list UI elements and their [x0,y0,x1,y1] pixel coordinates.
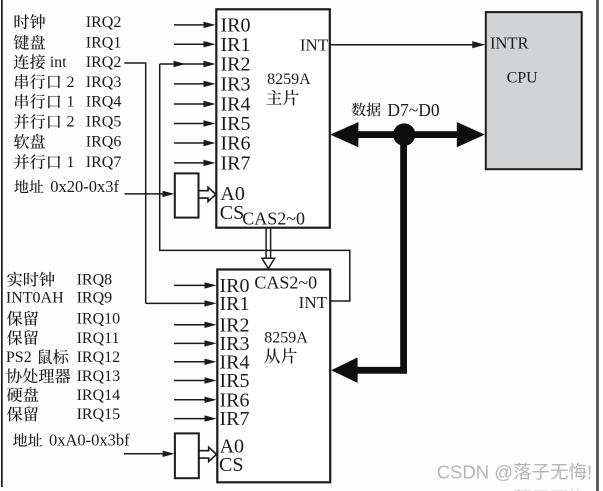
svg-text:0xA0-0x3bf: 0xA0-0x3bf [49,431,130,450]
svg-text:IR1: IR1 [221,34,251,56]
svg-text:IR2: IR2 [221,54,251,76]
svg-text:CAS2~0: CAS2~0 [254,272,317,292]
svg-text:IR7: IR7 [221,153,251,175]
svg-text:IRQ8: IRQ8 [77,272,113,289]
svg-text:int: int [50,54,67,71]
svg-text:IRQ10: IRQ10 [77,311,121,328]
svg-text:IRQ7: IRQ7 [86,154,122,171]
svg-text:IRQ12: IRQ12 [77,349,121,366]
svg-text:8259A: 8259A [264,330,308,347]
svg-text:CS: CS [219,454,243,476]
svg-text:CSDN @: CSDN @ [437,488,513,491]
svg-text:PS2: PS2 [6,349,32,366]
svg-text:IR3: IR3 [221,74,251,96]
svg-text:!: ! [587,461,592,482]
svg-text:CPU: CPU [507,70,539,87]
svg-text:!: ! [587,488,592,491]
svg-text:CAS2~0: CAS2~0 [242,209,305,229]
svg-text:2: 2 [67,114,75,131]
svg-text:IRQ14: IRQ14 [77,387,121,404]
svg-text:2: 2 [67,74,75,91]
svg-text:D7~D0: D7~D0 [387,100,439,120]
svg-text:IRQ2: IRQ2 [86,14,122,31]
svg-text:IRQ4: IRQ4 [86,94,122,111]
svg-text:0x20-0x3f: 0x20-0x3f [50,177,119,196]
svg-text:IR6: IR6 [221,133,251,155]
svg-text:IRQ13: IRQ13 [77,368,121,385]
svg-text:IRQ2: IRQ2 [86,54,122,71]
svg-text:IRQ11: IRQ11 [77,330,120,347]
svg-text:CSDN @: CSDN @ [437,461,513,482]
svg-text:IRQ15: IRQ15 [77,406,121,423]
svg-text:1: 1 [67,154,75,171]
svg-text:CS: CS [220,202,244,224]
svg-text:IRQ6: IRQ6 [86,134,122,151]
svg-text:INT: INT [299,293,328,312]
svg-text:8259A: 8259A [267,71,311,88]
svg-text:IR7: IR7 [220,408,250,430]
svg-text:1: 1 [67,94,75,111]
svg-text:IR1: IR1 [220,293,250,315]
svg-text:IRQ5: IRQ5 [86,114,122,131]
svg-text:INTR: INTR [490,33,529,52]
svg-text:INT0AH: INT0AH [6,289,64,306]
svg-text:INT: INT [300,36,329,55]
svg-text:IRQ1: IRQ1 [86,35,122,52]
svg-text:IRQ3: IRQ3 [86,74,122,91]
svg-text:IRQ9: IRQ9 [77,289,113,306]
